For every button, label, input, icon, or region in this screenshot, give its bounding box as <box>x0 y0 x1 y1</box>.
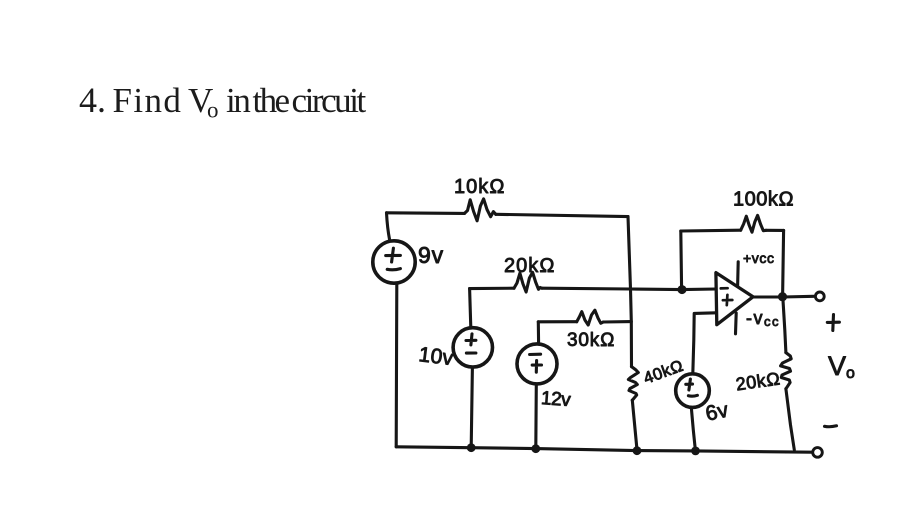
svg-text:6v: 6v <box>704 398 731 425</box>
V2 minus sign <box>466 351 476 354</box>
wire: top-left horizontal from 9V source to R1 <box>387 211 465 215</box>
wire: feedback top horizontal right of R5 <box>766 229 784 232</box>
V3 plus sign <box>532 361 541 373</box>
node dot: 10V source at rail <box>467 443 476 452</box>
wire: node X vertical (10k to 30k to 40k) <box>628 217 632 367</box>
svg-text:the: the <box>253 81 290 120</box>
svg-text:10v: 10v <box>417 343 455 370</box>
svg-text:20kΩ: 20kΩ <box>735 368 782 394</box>
svg-text:Vo: Vo <box>828 351 855 382</box>
wire: -vcc stub <box>734 313 738 334</box>
svg-text:circuit: circuit <box>292 81 367 120</box>
node dot: op-amp output <box>778 292 787 301</box>
wire: 20k right bottom lead to rail <box>786 389 794 450</box>
resistor R5 100k zigzag <box>741 215 766 232</box>
source V4 6V circle <box>676 374 710 408</box>
node dot: 12V source at rail <box>531 444 540 453</box>
V1 minus sign <box>387 269 400 270</box>
svg-text:4.: 4. <box>79 80 106 120</box>
wire: inverting input from node to op-amp <box>682 287 716 291</box>
terminal: open circle bottom-right <box>813 448 823 458</box>
wire: output to terminal <box>754 295 814 299</box>
V1 plus sign <box>386 248 401 262</box>
svg-text:9v: 9v <box>418 242 444 268</box>
svg-text:in: in <box>226 81 250 120</box>
wire: 30k wire left segment <box>538 320 576 323</box>
wire: feedback top horizontal left of R5 <box>681 229 741 233</box>
svg-text:100kΩ: 100kΩ <box>733 189 794 211</box>
svg-text:10kΩ: 10kΩ <box>454 176 506 198</box>
wire: top horizontal from R1 to node X vertical <box>496 214 628 216</box>
V2 plus sign <box>466 334 476 345</box>
node dot: inverting input <box>678 285 687 294</box>
wire: 9V bottom lead down to bottom rail <box>395 285 399 447</box>
U1 inverting input minus sign <box>721 287 728 290</box>
V4 plus sign <box>686 379 693 390</box>
wire: 20k wire left segment <box>470 287 514 290</box>
resistor R4 40k vertical zigzag <box>628 367 638 401</box>
wire: 6V top lead up and right to op-amp + input <box>693 313 716 374</box>
label minus terminal <box>825 424 837 428</box>
wire: bottom rail (ground return) <box>396 447 812 452</box>
svg-text:30kΩ: 30kΩ <box>567 330 615 351</box>
node dot: 40k at rail <box>633 446 642 455</box>
label plus terminal <box>827 315 839 331</box>
wire: 6V bottom lead to rail <box>691 407 695 449</box>
V3 minus sign <box>530 353 541 356</box>
resistor R1 10k zigzag <box>465 199 496 221</box>
wire: 10V top lead up to 20k wire <box>470 289 471 328</box>
source V1 9V circle <box>373 241 415 283</box>
wire: 30k wire right segment to node X <box>603 320 631 323</box>
source V3 12V circle <box>517 344 557 384</box>
svg-text:20kΩ: 20kΩ <box>504 255 556 277</box>
wire: feedback left vertical <box>679 231 683 289</box>
wire: 12V bottom lead down to rail <box>534 384 538 448</box>
wire: left vertical from top wire to 9V source <box>387 213 390 240</box>
wire: 40k bottom lead to rail <box>632 400 637 450</box>
source V2 10V circle <box>453 328 492 367</box>
svg-text:+vcc: +vcc <box>743 250 775 266</box>
wire: +vcc stub <box>736 262 740 287</box>
svg-text:o: o <box>207 98 219 123</box>
svg-text:Find: Find <box>113 81 183 120</box>
resistor R3 30k zigzag <box>577 310 604 325</box>
op-amp U1 triangle <box>716 273 753 325</box>
svg-text:-vcc: -vcc <box>746 308 780 329</box>
title text: 4. Find Vo in the circuit <box>79 80 366 123</box>
U1 non-inverting input plus sign <box>723 295 732 305</box>
node dot: 6V source at rail <box>691 447 700 456</box>
V4 minus sign <box>688 394 697 398</box>
terminal: open circle output <box>815 292 824 301</box>
resistor R6 20k right vertical zigzag <box>781 353 792 389</box>
wire: 20k wire right segment to inverting node <box>542 288 682 289</box>
wire: 12V top lead up to 30k wire <box>537 322 540 344</box>
wire: feedback right vertical down to output <box>783 230 784 296</box>
wire: 10V bottom lead down to rail <box>471 367 472 447</box>
resistor R2 20k zigzag <box>514 272 542 292</box>
svg-text:12v: 12v <box>540 388 572 411</box>
wire: output down to 20k right resistor <box>783 297 786 353</box>
